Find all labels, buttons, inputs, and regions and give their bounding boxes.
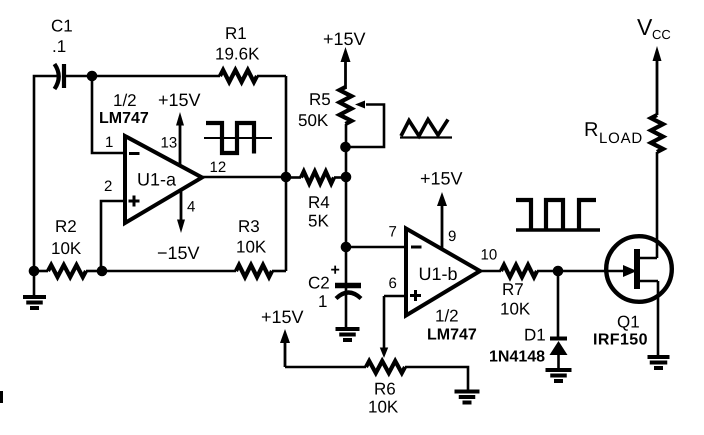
svg-text:D1: D1 [524,326,546,345]
pin 9 label [448,228,456,245]
svg-text:1: 1 [318,292,327,311]
node B : output / R4 / rail junction [281,172,292,183]
svg-text:10K: 10K [368,398,399,417]
ground : right of R6 [455,392,480,403]
svg-text:U1-b: U1-b [419,264,458,284]
svg-text:R1: R1 [225,24,247,43]
svg-text:5K: 5K [308,212,329,231]
svg-text:+15V: +15V [420,169,463,189]
resistor R3 10K [236,217,286,277]
diode D1 1N4148 [489,271,568,370]
wire : right vertical rail (R1/R3 to output node) [285,76,288,271]
node : R7 / D1 / gate junction [553,266,564,277]
svg-text:R2: R2 [55,217,77,236]
wire : Q1 drain up to R LOAD [656,152,659,258]
svg-text:R4: R4 [308,193,330,212]
wire : R2 node to R3 [102,270,236,273]
op-amp U1-a 1/2 LM747 [99,91,202,223]
svg-text:R5: R5 [309,90,331,109]
svg-text:10K: 10K [500,300,531,319]
capacitor C1 [51,17,73,90]
triangle wave symbol [400,120,452,138]
svg-text:U1-a: U1-a [137,170,177,190]
svg-text:4: 4 [187,199,195,216]
resistor R2 10K [34,217,102,277]
svg-text:10K: 10K [236,238,267,257]
svg-text:10: 10 [481,247,498,264]
power +15V arrow for U1-a pin 13 [158,90,201,167]
wire : R1 right lead to vertical rail [257,75,286,78]
svg-text:R: R [584,119,598,141]
pin 4 label [187,199,195,216]
resistor R7 10K [500,265,558,319]
pin 13 label [161,135,178,152]
wire : node to Q1 gate [558,270,624,273]
stray mark at left edge [0,391,3,403]
svg-text:LM747: LM747 [99,110,149,127]
node A : C1 / R1 / U1-a pin1 junction [87,71,98,82]
svg-text:−15V: −15V [157,243,200,263]
svg-text:R3: R3 [238,217,260,236]
svg-text:R6: R6 [374,380,396,399]
svg-text:+15V: +15V [261,307,304,327]
wire : U1-b output pin 10 to R7 [480,270,501,273]
svg-text:.1: .1 [52,37,66,56]
svg-text:Q1: Q1 [617,313,640,332]
wire : R5 wiper loop [346,101,384,148]
svg-text:V: V [637,14,653,40]
wire : feedback from node A down to pin 1 [92,76,125,153]
svg-text:1/2: 1/2 [113,91,137,110]
node : R5 bottom / wiper junction [340,142,351,153]
wire : center vertical rail R5 to C2 [345,124,348,329]
svg-text:+15V: +15V [323,29,366,49]
svg-text:C1: C1 [51,17,73,36]
wire : +15V to R6 [285,366,366,369]
wire : rail to U1-b pin 7 [346,246,406,249]
pin 6 label [389,275,397,292]
resistor R6 10K potentiometer [366,361,405,417]
resistor R1 19.6K [215,24,260,82]
svg-text:1: 1 [105,134,113,151]
svg-text:7: 7 [389,224,397,241]
resistor R4 5K [286,172,346,231]
node : ground / R2 junction [29,266,40,277]
resistor R LOAD [584,115,663,152]
svg-text:50K: 50K [298,111,329,130]
wire : R6 wiper up to U1-b pin 6 [380,296,406,358]
svg-text:10K: 10K [51,239,82,258]
capacitor C2 1uF polarized [308,262,361,311]
wire : C1 left lead down to ground rail [34,76,59,273]
wire : pin 2 input wire [101,201,125,271]
op-amp U1-b 1/2 LM747 [406,229,480,344]
svg-text:9: 9 [448,228,456,245]
transistor Q1 IRF150 [593,236,672,348]
pin 1 label [105,134,113,151]
svg-text:C2: C2 [308,274,330,293]
power +15V arrow for U1-b pin 9 [420,169,463,250]
wire : Q1 source down to ground [657,281,660,357]
pin 2 label [104,178,112,195]
svg-text:LOAD: LOAD [599,130,643,147]
node : R4 / rail junction [341,172,352,183]
ground : below R2 [23,271,46,308]
wire : node A to R1 [92,75,220,78]
node : pin 7 tap on rail [341,242,352,253]
pin 12 label [210,159,227,176]
svg-text:+15V: +15V [158,90,201,110]
svg-text:1/2: 1/2 [435,307,459,326]
svg-text:IRF150: IRF150 [593,332,648,349]
svg-text:1N4148: 1N4148 [489,349,545,366]
svg-text:12: 12 [210,159,227,176]
wire : U1-a output (pin 12) to node B [202,176,286,179]
svg-text:6: 6 [389,275,397,292]
resistor R5 50K potentiometer [298,87,352,130]
power +15V arrow for R6 [261,307,304,367]
wire : R6 right to ground [405,367,468,392]
ground : below D1 [546,370,572,381]
svg-text:19.6K: 19.6K [215,45,260,64]
power +15V arrow above R5 [323,29,366,89]
power VCC arrow [637,14,671,115]
svg-text:CC: CC [652,27,671,42]
svg-text:R7: R7 [502,280,524,299]
wire : C1 to node A [65,75,92,78]
pin 7 label [389,224,397,241]
svg-text:LM747: LM747 [427,327,477,344]
pin 10 label [481,247,498,264]
svg-text:13: 13 [161,135,178,152]
square wave symbol at U1-b output [516,200,600,230]
square wave symbol at U1-a output [204,123,272,154]
svg-text:+: + [331,262,340,279]
ground : below C2 [336,329,360,340]
ground : Q1 source [648,357,670,368]
svg-text:2: 2 [104,178,112,195]
power -15V arrow for U1-a pin 4 [157,190,200,263]
node : R2 / R3 / pin 2 junction [97,266,108,277]
